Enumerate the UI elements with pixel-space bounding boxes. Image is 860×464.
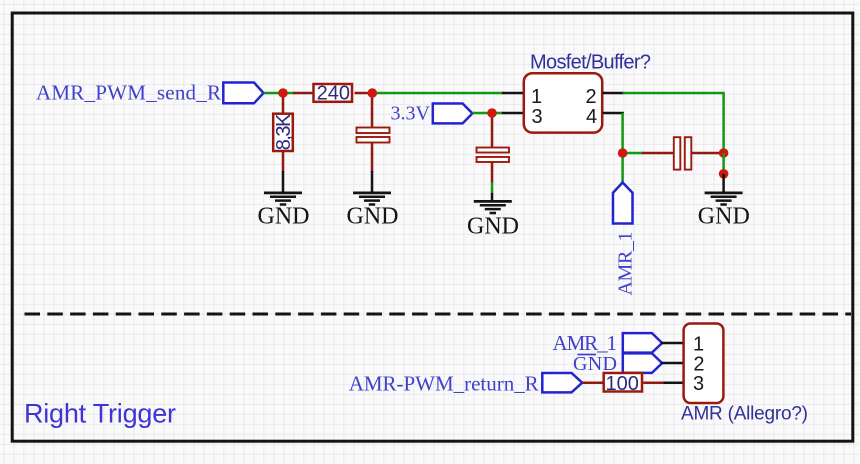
svg-text:GND: GND [698, 204, 750, 230]
section divider (dashed line) [25, 313, 852, 316]
svg-text:3.3V: 3.3V [391, 103, 431, 125]
capacitor C3 [674, 137, 692, 169]
wire C1 to gnd (dark red) [371, 143, 374, 173]
pin 1 stub of connector (black) [661, 342, 684, 345]
component U1 body [524, 73, 602, 132]
pin 2 stub of connector (black) [661, 362, 684, 365]
wire to gnd G3 (black) [491, 193, 494, 202]
wire 3.3V to node C (green) [472, 112, 503, 115]
wire segment (green) [491, 182, 494, 194]
svg-text:Mosfet/Buffer?: Mosfet/Buffer? [530, 52, 651, 74]
svg-text:8,3K: 8,3K [273, 113, 295, 150]
junction node D [618, 148, 628, 158]
svg-text:Right Trigger: Right Trigger [24, 398, 176, 428]
junction node C [487, 108, 497, 118]
wire R100 to pin3 (dark red) [643, 381, 665, 384]
wire to gnd G2 (black) [371, 171, 374, 194]
wire node C down to C2 [491, 113, 494, 149]
wire flag to R100 (dark red) [582, 381, 604, 384]
ground G3 [474, 201, 512, 213]
wire R 8.3K to gnd (dark red) [282, 152, 285, 172]
overline over N [578, 354, 597, 356]
wire pin2 right (green) [623, 92, 725, 95]
junction node A [278, 88, 288, 98]
svg-text:GND: GND [258, 204, 310, 230]
svg-text:2: 2 [585, 86, 596, 108]
svg-text:2: 2 [693, 353, 704, 375]
junction node E [719, 148, 729, 158]
wire C3 to node E (dark red) [691, 152, 725, 155]
net flag AMR-PWM_return_R [542, 373, 582, 392]
wire node D down to port (green) [621, 152, 624, 183]
svg-text:3: 3 [531, 106, 542, 128]
wire to gnd G1 (black) [282, 171, 285, 194]
svg-text:1: 1 [693, 334, 704, 356]
net flag AMR_1 (bottom) [623, 333, 662, 353]
pin 1 stub (black) [502, 92, 524, 95]
svg-text:AMR_1: AMR_1 [615, 232, 637, 296]
junction node F [719, 169, 729, 179]
svg-text:AMR_PWM_send_R: AMR_PWM_send_R [36, 81, 221, 105]
wire node D right (green) [623, 152, 644, 155]
wire node B down to C1 [371, 93, 374, 129]
wire node A to R240 (dark red) [293, 92, 314, 95]
connector J1 body [684, 324, 724, 404]
svg-text:AMR (Allegro?): AMR (Allegro?) [681, 404, 808, 425]
svg-text:1: 1 [531, 86, 542, 108]
wire to C3 (dark red) [642, 152, 675, 155]
svg-text:AMR-PWM_return_R: AMR-PWM_return_R [349, 372, 539, 396]
wire node E to node F (green) [722, 153, 725, 175]
resistor 240 [314, 83, 353, 105]
wire pin4 down to node D (green) [621, 113, 624, 154]
resistor 100 [604, 373, 642, 395]
svg-text:GND: GND [347, 204, 399, 230]
ground G2 [353, 193, 391, 205]
pin 3 stub of connector (black) [664, 381, 684, 384]
wire flag to node A (green) [264, 92, 295, 95]
svg-text:AMR_1: AMR_1 [553, 331, 618, 355]
port AMR_PWM_send_R (flag) [223, 83, 263, 104]
svg-text:4: 4 [586, 106, 597, 128]
wire node B to pin1 (green) [371, 92, 503, 95]
net flag GND (bottom) [623, 353, 662, 373]
junction node B [368, 88, 378, 98]
svg-text:3: 3 [693, 373, 704, 395]
wire down right (green) [722, 93, 725, 153]
pin 2 stub (black) [603, 92, 624, 95]
capacitor C1 [357, 128, 390, 143]
ground G4 [705, 193, 743, 205]
power port 3.3V (flag) [433, 104, 473, 124]
svg-text:GND: GND [573, 353, 617, 375]
pin 4 stub (black) [603, 112, 624, 115]
port AMR_1 (flag, pointing up) [613, 183, 633, 224]
svg-text:GND: GND [467, 213, 519, 239]
svg-text:100: 100 [606, 373, 639, 395]
wire R240 to node B (dark red) [355, 92, 374, 95]
wire node F to gnd G4 (black) [722, 174, 725, 194]
resistor 8.3K [273, 113, 295, 151]
pin 3 stub (black) [502, 112, 524, 115]
svg-text:240: 240 [317, 83, 350, 105]
ground G1 [264, 193, 302, 205]
capacitor C2 [477, 148, 510, 163]
wire node A down to R 8.3K [282, 93, 285, 114]
wire C2 down (dark red) [491, 162, 494, 183]
